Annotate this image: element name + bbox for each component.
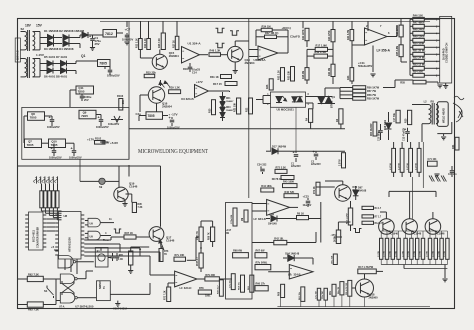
weld head box	[437, 102, 448, 127]
regulator U 7812	[103, 30, 117, 38]
resistor R77 10K	[174, 257, 186, 261]
wire U13 out	[197, 278, 205, 280]
svg-text:220u/50V: 220u/50V	[291, 166, 301, 168]
AND gate U9-B	[88, 218, 100, 227]
resistor R20 vertical	[408, 110, 412, 124]
svg-text:C1946: C1946	[390, 232, 398, 236]
IC U12 small box top	[95, 248, 108, 268]
svg-text:R29 1.2K: R29 1.2K	[169, 86, 180, 90]
transformer T2 primary winding	[25, 59, 27, 77]
svg-text:2W: 2W	[121, 100, 125, 104]
svg-text:3.5T/W: 3.5T/W	[398, 163, 400, 170]
resistor R1M inside	[244, 210, 248, 222]
diode D17 1N4148	[266, 150, 271, 152]
resistor R17b 1.9M	[315, 47, 327, 51]
svg-text:15V: 15V	[36, 24, 43, 28]
svg-text:+5.6V: +5.6V	[110, 141, 119, 145]
capacitor C11a	[81, 94, 83, 96]
wire U14	[312, 258, 314, 265]
svg-text:R76: R76	[164, 251, 169, 253]
potentiometer RP1	[111, 119, 123, 121]
regulator Q2 7805	[98, 60, 111, 67]
svg-text:R78: R78	[199, 287, 204, 290]
svg-text:R73 7.3K: R73 7.3K	[165, 290, 167, 300]
wire long bottom left	[17, 278, 19, 280]
resistor R45 180K	[283, 184, 298, 188]
svg-text:R21 10K: R21 10K	[235, 102, 237, 112]
svg-text:C6x 1W: C6x 1W	[322, 291, 324, 299]
resistor R67c 6W	[255, 253, 267, 258]
svg-text:D1 1N5408 D2 1N5408 1N5408: D1 1N5408 D2 1N5408 1N5408	[44, 29, 85, 33]
latch cross wires	[62, 284, 74, 293]
wire U3 inputs	[249, 49, 258, 51]
capacitor C9 1000u/25V	[53, 148, 55, 151]
resistor R66 17k	[255, 286, 268, 291]
wire Q15	[159, 50, 161, 55]
svg-text:18V: 18V	[25, 24, 32, 28]
wire Q16 bottom	[156, 103, 158, 112]
ground mid right	[434, 173, 439, 175]
svg-text:D64 1N4148: D64 1N4148	[285, 253, 299, 256]
svg-text:R46 1.3K: R46 1.3K	[210, 49, 221, 53]
svg-text:R97 1K: R97 1K	[125, 232, 134, 235]
svg-text:6: 6	[388, 31, 390, 35]
resistor RB2-12 vertical	[446, 238, 449, 259]
wire opto pin4 down	[270, 107, 272, 151]
svg-text:R50 100K: R50 100K	[413, 42, 425, 46]
ground bank	[444, 265, 446, 279]
resistor R48 ladder	[413, 31, 425, 35]
resistor R7b 1.7	[362, 215, 374, 218]
svg-text:D19 2261: D19 2261	[385, 119, 387, 130]
resistor R72 3.3K	[275, 169, 287, 173]
resistor R73b horizontal	[281, 176, 294, 180]
svg-text:R103: R103	[117, 94, 124, 98]
svg-text:1M: 1M	[242, 218, 244, 221]
svg-text:R55 3.9M: R55 3.9M	[397, 46, 399, 56]
svg-text:R46 15K: R46 15K	[413, 14, 423, 18]
svg-text:C30 560u: C30 560u	[379, 131, 381, 141]
op-amp U14 left-pointing	[289, 265, 313, 280]
capacitor C1b 220u/50V	[295, 151, 297, 153]
svg-text:R52 24 ML: R52 24 ML	[413, 56, 426, 60]
wire opto inputs	[263, 95, 271, 97]
svg-text:R34 1M: R34 1M	[262, 24, 271, 28]
resistor R33 vertical	[291, 67, 295, 82]
svg-text:+: +	[98, 115, 101, 119]
svg-text:R46 72K: R46 72K	[285, 191, 295, 194]
svg-text:U3 324-B: U3 324-B	[181, 97, 194, 101]
transistor Q18 power	[356, 279, 374, 297]
svg-text:+: +	[51, 146, 54, 150]
svg-text:R54 10K: R54 10K	[413, 70, 423, 74]
svg-text:D44: D44	[270, 214, 275, 217]
transformer T2 secondary winding	[33, 59, 35, 77]
svg-text:BTA41: BTA41	[331, 100, 334, 108]
resistor R68 6W	[233, 253, 249, 258]
resistor RB2-3 vertical	[391, 238, 394, 259]
resistor R4 vertical	[309, 109, 313, 123]
NAND gate U7-A	[60, 274, 74, 284]
svg-text:DC78 33: DC78 33	[272, 177, 283, 181]
svg-text:R33 10K: R33 10K	[289, 70, 291, 80]
wire top bus	[100, 20, 430, 22]
wire Q18	[352, 287, 355, 289]
svg-text:6: 6	[308, 94, 310, 96]
resistor R18 vertical	[305, 68, 309, 80]
svg-text:R21 1M: R21 1M	[329, 68, 331, 76]
svg-text:324-B: 324-B	[294, 273, 301, 277]
resistor R15 23k	[144, 74, 155, 77]
svg-text:R36: R36	[267, 84, 269, 89]
pulse glyph osc2	[230, 31, 239, 36]
resistor R63 vertical bank	[392, 148, 396, 172]
svg-text:R60 2K/WW: R60 2K/WW	[371, 123, 373, 136]
resistor R27 vertical	[175, 36, 179, 49]
svg-text:7805: 7805	[27, 143, 34, 147]
resistor R37 1M	[265, 35, 277, 38]
svg-text:R17 15: R17 15	[213, 82, 222, 86]
resistor R10b vertical	[219, 280, 223, 296]
svg-text:R23 470K: R23 470K	[328, 30, 331, 41]
wire U2 out	[387, 36, 397, 38]
IC U8 pins right	[81, 214, 84, 216]
resistor R72b 4.7K vertical	[348, 280, 352, 296]
svg-text:220u/50V: 220u/50V	[311, 164, 321, 166]
transistor Q19	[114, 187, 128, 201]
AND gate U9-C	[88, 231, 100, 240]
svg-text:R47 49K6: R47 49K6	[413, 21, 425, 25]
svg-text:R56 1K7W: R56 1K7W	[367, 86, 380, 89]
hatch marks phase	[429, 176, 432, 182]
svg-text:LF: LF	[288, 273, 292, 277]
svg-text:R0 1K: R0 1K	[297, 213, 304, 216]
resistor RB2-6 vertical	[410, 238, 413, 259]
wire bottom bus	[277, 306, 430, 308]
resistor RB2-1 vertical	[380, 238, 383, 259]
resistor R12 vertical	[147, 39, 151, 50]
svg-text:S2: S2	[21, 27, 25, 31]
AND gate U9-B wires	[85, 220, 88, 222]
svg-text:1.57W: 1.57W	[402, 251, 404, 257]
resistor R62c 7.3K	[27, 276, 43, 281]
svg-text:+: +	[313, 150, 316, 154]
svg-text:+17V: +17V	[196, 80, 203, 84]
wire top right bus drops	[302, 21, 304, 28]
wire LED	[79, 159, 81, 181]
wire R62 R63	[18, 278, 28, 280]
wire phase lines	[340, 87, 353, 89]
resistor R43 vertical	[350, 68, 354, 81]
capacitor C2 1000u/25V	[104, 67, 106, 70]
svg-text:+: +	[71, 146, 74, 150]
svg-text:C12 47u/63V: C12 47u/63V	[403, 127, 406, 141]
svg-text:D3 1N5408 D4 1N5408: D3 1N5408 D4 1N5408	[44, 47, 74, 51]
resistor RB2-2 vertical	[385, 238, 388, 259]
wire reg row	[70, 89, 76, 91]
svg-text:R20: R20	[406, 118, 408, 123]
resistor R67b 1K	[297, 216, 309, 220]
svg-text:R61: R61	[453, 144, 455, 149]
resistor R79 20K	[205, 277, 220, 281]
svg-text:+D(C1): +D(C1)	[282, 26, 291, 30]
label +5.6V	[100, 141, 108, 143]
resistor R65 vertical	[250, 275, 254, 292]
svg-text:R7b 56WL: R7b 56WL	[256, 262, 268, 265]
svg-text:BCD 4511: BCD 4511	[32, 230, 36, 242]
svg-text:R95: R95	[138, 204, 143, 206]
svg-text:2N3960: 2N3960	[369, 296, 379, 300]
resistor R52 ladder	[413, 59, 425, 63]
resistor R4b 1.7	[362, 206, 374, 209]
regulator Q10 7905	[49, 139, 66, 148]
diode D7	[61, 61, 67, 67]
svg-text:R50 390K: R50 390K	[397, 25, 399, 36]
wire box to lower area	[128, 165, 130, 177]
capacitor C72 vertical	[317, 288, 320, 300]
regulator Q8 7805	[28, 112, 45, 121]
diode D19 vertical	[388, 112, 390, 122]
svg-text:R43: R43	[347, 75, 350, 80]
svg-text:2N2904: 2N2904	[162, 105, 172, 109]
svg-text:C34 10n: C34 10n	[448, 173, 457, 176]
svg-text:7: 7	[380, 24, 382, 28]
resistor RN1-5	[56, 191, 59, 208]
wire center vertical	[248, 19, 250, 199]
svg-text:10u/25V: 10u/25V	[303, 205, 312, 207]
transistor Q25 output	[425, 219, 441, 235]
wire top frame lower	[18, 165, 161, 167]
wire Q19	[118, 166, 120, 187]
svg-text:C7x 10x: C7x 10x	[229, 279, 231, 288]
resistor RB2-4 vertical	[397, 238, 400, 259]
resistor R61 right vertical	[455, 137, 459, 150]
resistor R7x 56W	[255, 265, 271, 270]
resistor R49 ladder	[413, 38, 425, 42]
svg-text:DK1: DK1	[226, 98, 231, 100]
capacitor C12 47u/63V	[407, 128, 409, 131]
regulator Q7 7805	[25, 139, 42, 148]
wire BCD to MCU	[46, 218, 55, 220]
op-amp U3 324-A right	[258, 46, 278, 60]
svg-text:1000u/25V: 1000u/25V	[107, 74, 120, 78]
weld electrode	[453, 103, 462, 122]
wire psu internal	[23, 116, 25, 143]
resistor R71b 2K vertical	[340, 282, 344, 295]
svg-text:S9: S9	[99, 185, 103, 189]
svg-text:U8: U8	[64, 214, 68, 218]
transformer T1 core	[27, 30, 29, 51]
ground cap C1	[90, 47, 95, 49]
svg-text:1.57W: 1.57W	[390, 251, 392, 257]
svg-text:R62 1.37W: R62 1.37W	[346, 213, 348, 224]
svg-text:+C17: +C17	[226, 230, 232, 232]
svg-text:7K: 7K	[164, 254, 167, 256]
resistor R61b 15k vertical	[301, 287, 305, 302]
svg-text:25V: 25V	[95, 42, 100, 46]
resistor C17b vertical	[396, 110, 400, 123]
diode D3	[44, 43, 48, 45]
capacitor C8 1000u/25V	[100, 115, 102, 119]
wire left rail vertical	[17, 19, 19, 309]
svg-text:C14: C14	[192, 71, 197, 75]
wire collectors bus	[385, 212, 387, 219]
svg-text:7.3K: 7.3K	[138, 207, 143, 209]
svg-text:1.57W: 1.57W	[378, 251, 380, 257]
resistor RB2-7 vertical	[416, 238, 419, 259]
resistor R73c vertical	[167, 287, 171, 302]
wire Q19 emitter gnd	[124, 200, 126, 204]
op-amp U1 324-A	[182, 47, 200, 64]
transformer T1 secondary winding	[33, 32, 35, 50]
IC U11 BCD 4511	[29, 212, 44, 250]
svg-text:R6L 4.7K 7W: R6L 4.7K 7W	[345, 283, 348, 295]
diode D6	[44, 70, 47, 72]
svg-text:+C23: +C23	[303, 195, 310, 199]
svg-text:LF 324-D: LF 324-D	[254, 217, 266, 221]
diode D5	[44, 63, 47, 65]
svg-text:U1074HC14: U1074HC14	[113, 307, 128, 311]
svg-text:180L: 180L	[205, 295, 211, 298]
svg-text:A: A	[139, 247, 142, 251]
resistor R32 vertical	[281, 68, 285, 81]
wire U6	[252, 203, 267, 205]
resistor R46 ladder	[413, 17, 425, 21]
wire regs	[163, 115, 169, 117]
resistor R12b 1.7	[362, 221, 374, 224]
phototransistor Q16 with arrows	[148, 87, 164, 103]
svg-text:+17V: +17V	[87, 138, 95, 142]
svg-text:R4 1.7: R4 1.7	[375, 207, 382, 210]
svg-text:R32 1.2K: R32 1.2K	[279, 70, 281, 80]
svg-text:R44 180L: R44 180L	[261, 185, 272, 188]
IC U8 AT90S1200	[59, 212, 82, 260]
resistor R75 vertical	[129, 251, 133, 265]
ground C7	[124, 41, 129, 43]
wire phases to left	[339, 88, 341, 99]
resistor R99 vertical	[211, 227, 215, 242]
svg-text:LF 356-A: LF 356-A	[377, 49, 391, 53]
svg-text:100u/25V: 100u/25V	[122, 38, 133, 42]
wire bank bottom bus	[381, 264, 447, 266]
svg-text:C3u/FD: C3u/FD	[290, 35, 300, 39]
svg-text:R7x 7W: R7x 7W	[331, 256, 333, 264]
resistor R93 15K	[124, 235, 136, 239]
resistor R76 vertical	[159, 249, 163, 262]
svg-text:R41 6.7M: R41 6.7M	[347, 30, 350, 40]
AND gate U9-C wires	[85, 232, 88, 234]
svg-text:R17 1.9M: R17 1.9M	[316, 44, 327, 48]
wire gates cross	[56, 278, 60, 280]
resistor RB2-11 vertical	[440, 238, 443, 259]
optocoupler LED	[276, 97, 282, 103]
diode stack D11-D14	[222, 92, 224, 97]
svg-text:R45 180K: R45 180K	[283, 181, 294, 184]
regulator Q11 7805 above box	[76, 86, 94, 94]
svg-text:R16: R16	[183, 67, 188, 71]
svg-text:1.4K: 1.4K	[118, 258, 123, 261]
wire vertical x129	[128, 21, 130, 159]
svg-text:D6 4A01 D8 4A01: D6 4A01 D8 4A01	[44, 75, 68, 79]
svg-text:1N4148: 1N4148	[268, 223, 277, 226]
resistor R102 1W	[95, 141, 106, 145]
resistor R64 vertical bank	[400, 148, 404, 172]
resistor R65 vertical bank	[409, 148, 413, 172]
resistor R21b vertical	[237, 98, 241, 114]
svg-text:R71 2K: R71 2K	[314, 186, 316, 194]
svg-text:R102: R102	[95, 137, 102, 141]
capacitor C13 1000u/25V	[73, 148, 75, 151]
svg-text:7805: 7805	[99, 62, 107, 66]
svg-text:U1 324-A: U1 324-A	[188, 42, 202, 46]
svg-text:R31 1K: R31 1K	[210, 75, 219, 79]
diode D2	[63, 35, 69, 41]
resistor R63b 2K18 vertical	[336, 230, 340, 244]
diode D4	[63, 41, 69, 47]
resistor R55b 3.9M vertical	[399, 45, 403, 57]
svg-text:25V: 25V	[84, 98, 89, 102]
wire bridge2 output	[75, 61, 77, 64]
resistor R6 vertical	[339, 109, 343, 124]
transistor Q23 output	[379, 219, 395, 235]
svg-text:R58 7W: R58 7W	[367, 94, 377, 97]
IC U10 small	[97, 281, 111, 301]
wire bridge2 to reg	[109, 67, 111, 70]
ground R55	[426, 81, 438, 83]
svg-text:U3 324A: U3 324A	[254, 58, 267, 62]
ground U2	[372, 46, 374, 73]
svg-text:R05: R05	[119, 255, 124, 257]
svg-text:R62 7.3K: R62 7.3K	[28, 272, 39, 276]
svg-text:COUNTER DRIVER: COUNTER DRIVER	[38, 227, 40, 248]
svg-text:R67 6W: R67 6W	[256, 250, 266, 253]
svg-text:U9: U9	[90, 235, 94, 239]
svg-text:R27 1K: R27 1K	[174, 40, 176, 48]
wire bottom center	[219, 278, 232, 280]
svg-text:2: 2	[267, 104, 269, 106]
svg-text:R51 25 ML: R51 25 ML	[413, 49, 426, 53]
wire U10	[90, 297, 97, 299]
capacitor C71 104	[428, 161, 438, 166]
svg-text:7805: 7805	[30, 116, 37, 120]
svg-text:R49 12K6: R49 12K6	[413, 35, 425, 39]
svg-text:R30: R30	[210, 108, 212, 113]
resistor R46b 72K	[284, 194, 298, 198]
wire MCU bottom	[70, 259, 72, 272]
wire R100 R99	[200, 221, 202, 227]
resistor R17 15 horizontal	[225, 82, 237, 86]
capacitor C40 C41	[112, 253, 114, 256]
diode D8	[61, 68, 67, 74]
resistor RN1-3	[48, 191, 51, 208]
resistor RN1-2	[44, 191, 47, 208]
resistor R31 1K horizontal	[221, 75, 232, 79]
pulse glyph osc1	[216, 28, 225, 33]
wire opto-triac	[306, 96, 318, 98]
diode D64b 1N4148	[283, 257, 287, 259]
wire DIP to network	[41, 184, 43, 191]
svg-text:NM567: NM567	[98, 280, 102, 289]
svg-text:1.57W: 1.57W	[395, 251, 397, 257]
svg-text:S1: S1	[44, 289, 48, 293]
svg-text:D17 1N54W: D17 1N54W	[272, 145, 287, 149]
wire snubber2	[290, 150, 345, 152]
resistor R26 vertical	[161, 33, 165, 50]
transistor Q14	[227, 46, 243, 62]
svg-text:7805: 7805	[147, 114, 154, 118]
svg-text:1N4007: 1N4007	[226, 100, 234, 103]
IC U11 pins right	[43, 214, 46, 216]
